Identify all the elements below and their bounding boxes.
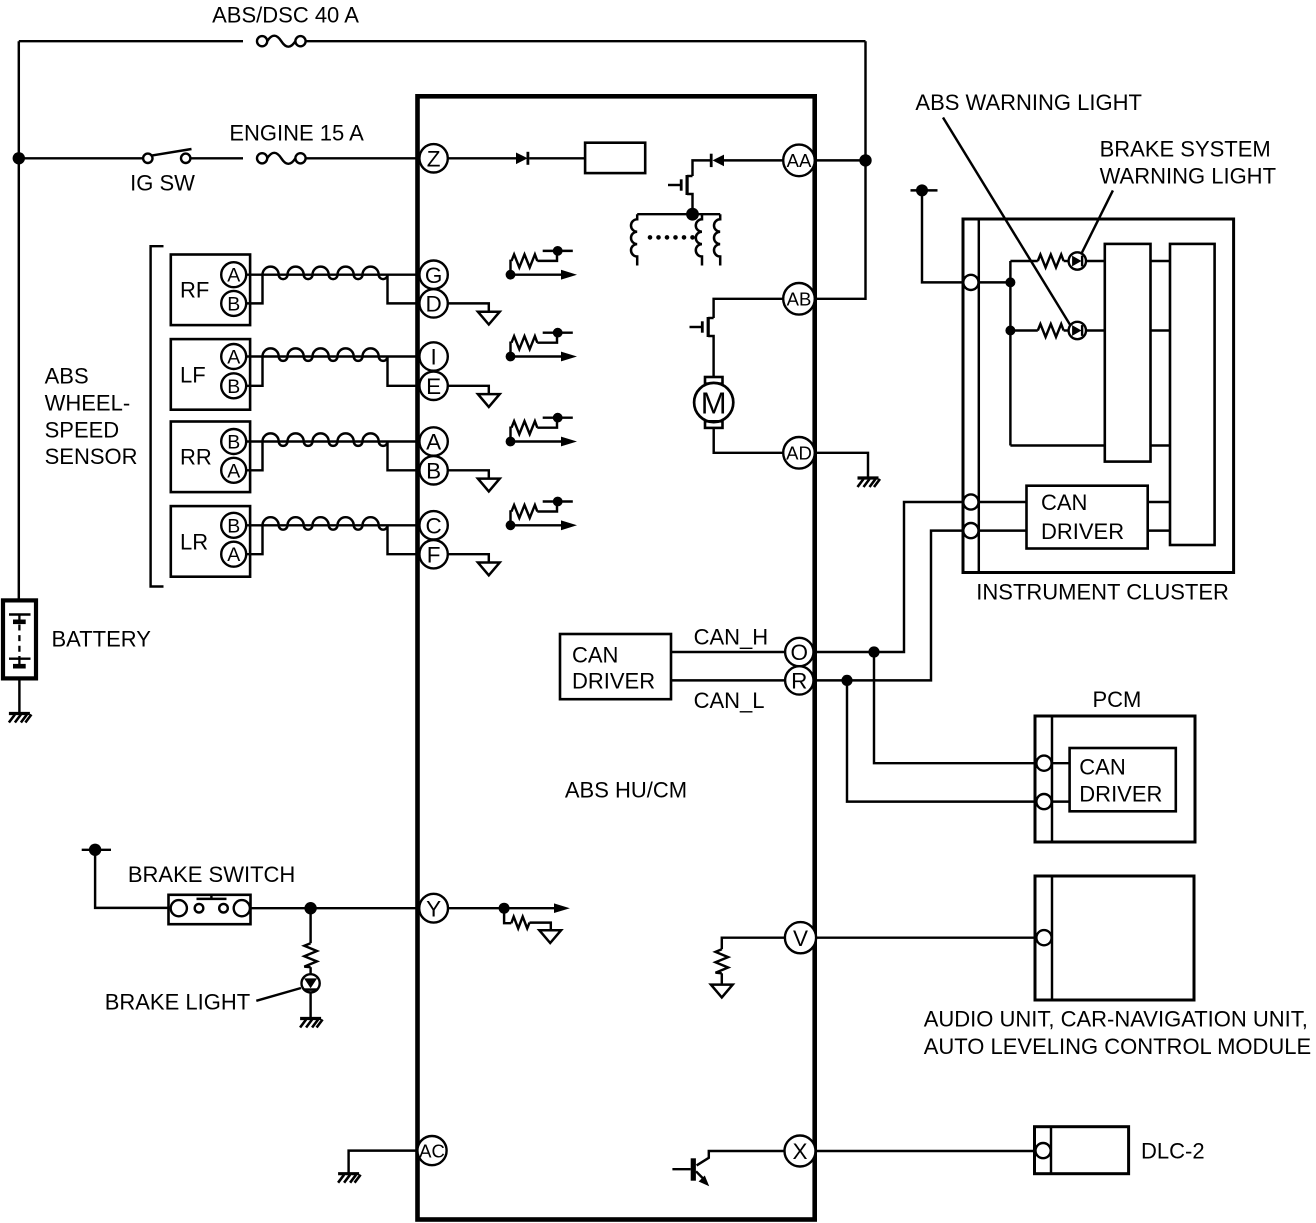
sensor RF (wheel-speed sensor) — [171, 255, 250, 326]
wire power stub to brake switch — [95, 850, 168, 908]
wire CAN driver to terminal O (CAN_H) — [671, 651, 785, 653]
resistor (brake system warning lamp) — [1010, 260, 1037, 262]
node junction lamp bus top — [1005, 277, 1015, 287]
svg-text:A: A — [227, 265, 240, 287]
ground (signal, terminal B) — [478, 479, 500, 492]
wire cluster feed to connector — [922, 190, 964, 282]
wire cluster CAN pins to CAN driver — [979, 502, 1027, 531]
node junction FET source / coil rail — [686, 208, 699, 221]
PCM box — [1035, 716, 1195, 842]
ellipsis dots (more coils) — [648, 235, 695, 240]
transistor Q3 (DLC output driver) — [672, 1158, 709, 1186]
wire battery negative to ground — [18, 678, 20, 712]
wire terminal X to DLC-2 — [816, 1150, 1036, 1152]
wire terminal X to transistor Q3 collector — [697, 1151, 785, 1165]
wire diode to relay coil box — [529, 157, 585, 159]
connector strip (PCM) — [1051, 716, 1053, 842]
svg-text:E: E — [426, 374, 441, 399]
wire terminal F to signal ground — [448, 554, 489, 562]
relay coil box (fail-safe relay) — [585, 143, 645, 173]
wire sensor LF pin B elbow — [246, 357, 262, 386]
ground (signal, V pulldown) — [711, 985, 733, 998]
svg-text:DRIVER: DRIVER — [1041, 519, 1124, 544]
ground (signal, Y pulldown) — [539, 930, 561, 943]
svg-text:B: B — [227, 432, 240, 454]
pin Z — [419, 144, 447, 172]
svg-text:AD: AD — [786, 443, 812, 464]
pin V — [785, 922, 816, 953]
fuse ABS/DSC 40 A — [257, 36, 306, 47]
wire lamp bus vertical — [1009, 261, 1011, 446]
node junction battery / IG SW rail — [13, 152, 25, 164]
inductor L1 (solenoid coil) — [631, 214, 637, 265]
pin cluster CAN_H — [963, 494, 978, 509]
pin O — [785, 638, 813, 666]
svg-text:B: B — [227, 515, 240, 537]
wire twisted pair LR — [263, 517, 388, 530]
svg-text:AB: AB — [787, 289, 812, 310]
wire brake light to ground — [309, 992, 311, 1017]
svg-text:BRAKE LIGHT: BRAKE LIGHT — [105, 990, 250, 1015]
wire coil supply rail — [637, 213, 720, 215]
svg-text:A: A — [227, 347, 240, 369]
pullup network on terminal I line — [506, 328, 577, 362]
wire lamp bus bottom to controller — [1010, 444, 1104, 446]
ground (battery) — [9, 714, 32, 723]
wire PCM pins to CAN driver — [1052, 763, 1070, 801]
INSTRUMENT CLUSTER box — [963, 219, 1234, 573]
wire battery B+ rail (top horizontal) — [19, 40, 243, 42]
svg-text:M: M — [701, 386, 727, 421]
resistor (ABS warning lamp) — [1010, 329, 1037, 331]
node junction CAN_L to PCM — [841, 675, 852, 686]
wire AA to diode D2 — [724, 159, 784, 161]
ground (signal, terminal F) — [478, 563, 500, 576]
diode D2 (cathode left, toward FET) — [711, 154, 724, 167]
inductor L2 (solenoid coil) — [696, 214, 702, 265]
wire terminal B to signal ground — [448, 470, 489, 478]
svg-text:R: R — [791, 669, 807, 694]
svg-text:BATTERY: BATTERY — [52, 627, 152, 652]
wire diode D2 to transistor Q1 drain — [693, 160, 711, 176]
svg-text:Z: Z — [427, 146, 441, 171]
pin cluster CAN_L — [963, 523, 978, 538]
pin AC — [417, 1136, 446, 1165]
wire terminal V to pulldown — [722, 938, 785, 950]
switch IG SW — [143, 149, 191, 163]
pin PCM CAN_L — [1036, 794, 1051, 809]
wire controller links — [1151, 261, 1171, 446]
pullup network on terminal A line — [506, 413, 577, 447]
svg-text:IG SW: IG SW — [130, 171, 195, 196]
pin C — [419, 511, 447, 539]
lamp BRAKE LIGHT — [302, 974, 320, 992]
svg-text:RF: RF — [180, 278, 209, 303]
wire battery to IG switch — [19, 157, 143, 159]
svg-text:B: B — [227, 376, 240, 398]
wire sensor RR pin A elbow — [246, 442, 262, 471]
connector strip (audio unit) — [1051, 876, 1053, 1000]
wire CAN driver to terminal R (CAN_L) — [671, 679, 785, 681]
power stub (brake switch feed) — [82, 844, 111, 856]
ground (signal, terminal E) — [478, 394, 500, 407]
wire terminal D to signal ground — [448, 303, 489, 311]
node junction CAN_H to PCM — [868, 646, 879, 657]
pin DLC-2 — [1036, 1143, 1051, 1158]
connector strip (cluster) — [978, 219, 980, 573]
wire AD to ground — [815, 453, 868, 477]
ground (AC) — [338, 1174, 361, 1183]
transistor Q2 (pump motor FET) — [690, 317, 714, 377]
svg-text:CAN_H: CAN_H — [694, 624, 769, 649]
pin R — [785, 666, 813, 694]
fuse ENGINE 15 A — [257, 153, 306, 164]
svg-text:C: C — [425, 513, 441, 538]
bracket (sensor group) — [151, 246, 164, 586]
inductor L3 (solenoid coil) — [714, 214, 720, 265]
CAN DRIVER (cluster) — [1027, 486, 1148, 549]
svg-text:ABS/DSC 40 A: ABS/DSC 40 A — [212, 3, 359, 28]
wire terminal Y sense line with arrow — [448, 903, 570, 914]
wire brake switch to terminal Y — [250, 907, 420, 909]
pin I — [419, 342, 447, 370]
svg-text:ABS WARNING LIGHT: ABS WARNING LIGHT — [915, 90, 1142, 115]
CAN DRIVER (PCM) — [1070, 748, 1176, 811]
wire CAN_H from O to cluster — [814, 502, 964, 652]
svg-text:DRIVER: DRIVER — [572, 669, 655, 694]
power stub (cluster feed) — [911, 184, 938, 196]
wire CAN_L from R to cluster — [814, 531, 964, 681]
pin A — [419, 427, 447, 455]
wire left vertical battery rail — [18, 41, 20, 600]
lamp LED ABS warning light — [1069, 322, 1086, 339]
pin PCM CAN_H — [1036, 756, 1051, 771]
ground (brake light) — [300, 1019, 323, 1028]
wire CAN_L branch to PCM — [847, 680, 1037, 801]
svg-text:BRAKE SYSTEMWARNING LIGHT: BRAKE SYSTEMWARNING LIGHT — [1100, 137, 1276, 189]
battery — [3, 600, 36, 678]
pullup network on terminal G line — [506, 246, 577, 280]
pin B — [419, 456, 447, 484]
svg-text:ABS HU/CM: ABS HU/CM — [565, 777, 687, 802]
pin Y — [419, 894, 448, 923]
svg-text:CAN: CAN — [1079, 755, 1125, 780]
wire twisted pair RF — [263, 267, 388, 280]
svg-text:O: O — [791, 640, 809, 665]
svg-text:AA: AA — [787, 150, 812, 171]
wire sensor RF pin A to terminal G — [246, 273, 419, 275]
diode D1 (after Z) — [516, 152, 528, 165]
sensor RR (wheel-speed sensor) — [171, 422, 250, 493]
wire terminal E to signal ground — [448, 386, 489, 394]
wire fuse to terminal Z — [306, 157, 420, 159]
pin AB — [783, 283, 815, 315]
leader line to brake light — [256, 988, 301, 1001]
node junction lamp bus bottom — [1005, 326, 1015, 336]
sensor LR (wheel-speed sensor) — [171, 506, 250, 577]
motor M (ABS pump motor) — [694, 377, 733, 428]
resistor (Y input pulldown) — [504, 908, 511, 923]
wire sensor LR pin B to terminal C — [246, 524, 419, 526]
AUDIO UNIT box — [1035, 876, 1194, 1000]
svg-text:DRIVER: DRIVER — [1079, 782, 1162, 807]
DLC-2 box — [1035, 1127, 1129, 1174]
wire CAN_H branch to PCM — [874, 652, 1037, 763]
wire terminal Z to diode — [448, 157, 516, 159]
wire from fuse to right vertical drop — [306, 40, 866, 42]
pin G — [419, 261, 447, 289]
pin AA — [783, 145, 815, 177]
cluster controller block — [1105, 244, 1151, 462]
svg-text:AC: AC — [419, 1140, 445, 1161]
transistor Q1 (solenoid drive FET) — [668, 175, 693, 214]
svg-text:V: V — [793, 926, 808, 951]
svg-text:G: G — [425, 263, 443, 288]
svg-text:BRAKE SWITCH: BRAKE SWITCH — [128, 862, 295, 887]
svg-text:ENGINE 15 A: ENGINE 15 A — [229, 121, 364, 146]
wire IG switch to fuse — [190, 157, 243, 159]
resistor (brake light bulb filament feed) — [309, 908, 311, 943]
wire sensor LF pin A to terminal I — [246, 355, 419, 357]
node junction of AA wire on vertical drop — [859, 154, 871, 166]
svg-text:B: B — [426, 458, 441, 483]
pin E — [419, 372, 447, 400]
leader line ABS warning light — [943, 118, 1071, 326]
wire feed to lamp bus — [979, 281, 1011, 283]
svg-text:LR: LR — [180, 529, 208, 554]
svg-text:F: F — [427, 542, 441, 567]
svg-text:I: I — [430, 345, 436, 370]
connector strip (DLC-2) — [1050, 1127, 1052, 1174]
pullup network on terminal C line — [506, 497, 577, 531]
svg-text:INSTRUMENT CLUSTER: INSTRUMENT CLUSTER — [976, 580, 1229, 605]
wire terminal V to audio unit — [816, 936, 1037, 938]
wire AA to junction on vertical drop — [815, 159, 866, 161]
wire cluster CAN driver to MCU — [1148, 502, 1170, 531]
pin AD — [783, 437, 815, 469]
svg-text:PCM: PCM — [1092, 687, 1141, 712]
svg-text:DLC-2: DLC-2 — [1141, 1139, 1205, 1164]
wire AB to transistor Q2 drain — [714, 299, 784, 318]
svg-text:B: B — [227, 293, 240, 315]
wire terminal AC to ground — [349, 1151, 420, 1173]
wire sensor RR pin B to terminal A — [246, 440, 419, 442]
svg-text:CAN_L: CAN_L — [694, 688, 765, 713]
wire resistor to brake light — [309, 967, 311, 974]
svg-text:X: X — [792, 1139, 807, 1164]
svg-text:CAN: CAN — [572, 643, 618, 668]
ground (signal, terminal D) — [478, 312, 500, 325]
wire twisted pair end to terminal B — [388, 442, 420, 471]
cluster MCU block — [1170, 244, 1215, 545]
switch BRAKE SWITCH — [169, 894, 251, 925]
node junction brake light tap — [304, 902, 316, 914]
wire twisted pair LF — [263, 348, 388, 361]
wire twisted pair end to terminal E — [388, 357, 420, 386]
CAN DRIVER (ABS HU/CM) — [560, 634, 671, 699]
wire right vertical drop to AB — [815, 41, 866, 299]
svg-text:A: A — [227, 544, 240, 566]
ground (AD motor ground) — [858, 478, 881, 487]
pin audio unit — [1036, 930, 1051, 945]
pin D — [419, 289, 447, 317]
svg-text:Y: Y — [426, 896, 441, 921]
lamp LED brake system warning light — [1069, 252, 1086, 269]
pin F — [419, 540, 447, 568]
svg-text:RR: RR — [180, 445, 212, 470]
pin X — [785, 1136, 816, 1167]
pin cluster B+ — [963, 275, 978, 290]
svg-text:D: D — [425, 292, 441, 317]
sensor LF (wheel-speed sensor) — [171, 339, 250, 410]
wire sensor RF pin B elbow — [246, 275, 262, 304]
wire twisted pair RR — [263, 433, 388, 446]
wire motor to AD — [714, 428, 784, 453]
ABS HU/CM unit box — [418, 96, 815, 1219]
svg-text:CAN: CAN — [1041, 490, 1087, 515]
svg-text:A: A — [426, 430, 441, 455]
wire twisted pair end to terminal F — [388, 525, 420, 554]
leader line brake system warning light — [1081, 190, 1113, 254]
resistor (V pulldown) — [716, 949, 729, 973]
wire twisted pair end to terminal D — [388, 275, 420, 304]
svg-text:LF: LF — [180, 362, 206, 387]
svg-text:A: A — [227, 460, 240, 482]
wire sensor LR pin A elbow — [246, 525, 262, 554]
